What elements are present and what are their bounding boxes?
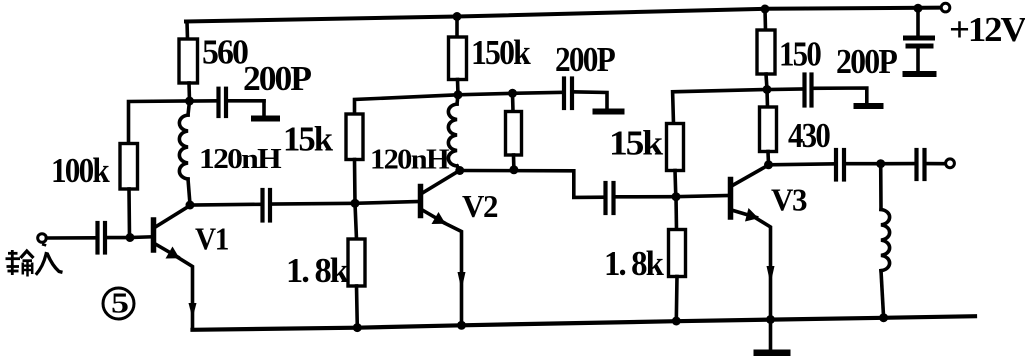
svg-text:200P: 200P bbox=[243, 59, 312, 98]
ground (stage 3 200P) bbox=[854, 103, 884, 109]
resistor 1.8k (stage 3 lower) bbox=[669, 197, 686, 321]
capacitor 200P (stage 1) to ground bbox=[190, 89, 265, 116]
node emitter V2 rail bbox=[457, 321, 466, 330]
wire node to base V3 bbox=[676, 196, 729, 197]
terminal +12V bbox=[941, 3, 950, 12]
svg-text:150k: 150k bbox=[471, 33, 531, 72]
inductor 120nH (stage 1) bbox=[179, 101, 190, 205]
svg-text:120nH: 120nH bbox=[370, 145, 450, 176]
svg-text:120nH: 120nH bbox=[199, 144, 282, 175]
svg-text:150: 150 bbox=[779, 35, 821, 74]
capacitor input coupling bbox=[98, 223, 126, 253]
resistor 150k bbox=[449, 17, 467, 95]
node top rail / 150k bbox=[453, 12, 462, 21]
transistor V3 bbox=[731, 165, 775, 320]
node collector V3 bbox=[764, 160, 773, 169]
terminal output bbox=[946, 159, 955, 168]
node output / inductor bbox=[876, 159, 885, 168]
node damping resistor bottom bbox=[509, 165, 518, 174]
wire input to cap bbox=[47, 236, 97, 240]
svg-text:560: 560 bbox=[202, 33, 248, 72]
capacitor 200P (stage 2) to ground bbox=[513, 79, 608, 110]
ground main (below rail) bbox=[754, 320, 791, 357]
svg-text:1. 8k: 1. 8k bbox=[286, 251, 349, 290]
resistor 15k (stage 2 upper) bbox=[346, 95, 458, 204]
svg-text:V1: V1 bbox=[195, 221, 228, 257]
capacitor coupling V2-V3 bbox=[460, 171, 676, 214]
svg-text:200P: 200P bbox=[555, 40, 615, 79]
node 150 bottom bbox=[763, 85, 772, 94]
resistor damping (parallel with L2) bbox=[506, 93, 522, 170]
capacitor output coupling 1 bbox=[769, 150, 881, 180]
svg-text:V2: V2 bbox=[462, 188, 497, 224]
wire node to base V2 bbox=[355, 202, 419, 204]
node collector V2 bbox=[455, 166, 464, 175]
capacitor bypass at +12V bbox=[903, 8, 937, 77]
node base V1 bbox=[126, 233, 135, 242]
wire node to base V1 bbox=[130, 235, 152, 239]
node emitter V3 rail bbox=[766, 315, 775, 324]
svg-text:15k: 15k bbox=[283, 120, 334, 159]
symbol circled 5 bbox=[103, 288, 134, 319]
node 1.8k bottom rail bbox=[353, 323, 362, 332]
terminal input bbox=[38, 234, 47, 243]
resistor 560 bbox=[179, 22, 198, 102]
resistor 1.8k (stage 2 lower) bbox=[348, 203, 365, 327]
svg-text:200P: 200P bbox=[836, 42, 897, 81]
resistor 430 bbox=[760, 90, 777, 165]
ground (stage 2 200P) bbox=[593, 109, 625, 115]
ground (stage 1 200P) bbox=[251, 116, 280, 122]
node top rail / 150 bbox=[761, 5, 770, 14]
capacitor 200P (stage 3) to ground bbox=[767, 75, 867, 106]
svg-text:1. 8k: 1. 8k bbox=[604, 244, 664, 283]
inductor 120nH (stage 2) bbox=[448, 95, 459, 171]
svg-text:+12V: +12V bbox=[949, 10, 1025, 49]
wire bottom common rail bbox=[193, 316, 976, 330]
node 560/100k/coil/200P bbox=[185, 97, 194, 106]
transistor V1 bbox=[154, 206, 197, 330]
wire top +12V supply rail bbox=[186, 8, 941, 22]
node 1.8k stage3 bottom rail bbox=[672, 317, 681, 326]
capacitor output coupling 2 bbox=[881, 150, 944, 179]
node 150k bottom bbox=[454, 90, 463, 99]
svg-text:V3: V3 bbox=[771, 182, 806, 218]
node collector V1 bbox=[186, 201, 195, 210]
inductor output bbox=[881, 164, 890, 318]
resistor 100k bbox=[120, 101, 190, 238]
label input (Chinese 输入) drawn as strokes bbox=[6, 244, 63, 276]
svg-text:5: 5 bbox=[111, 289, 129, 320]
svg-text:100k: 100k bbox=[51, 151, 110, 190]
capacitor coupling V1-V2 bbox=[190, 190, 355, 221]
svg-text:15k: 15k bbox=[609, 124, 664, 163]
svg-text:430: 430 bbox=[788, 116, 830, 155]
node base network V3 bbox=[672, 192, 681, 201]
transistor V2 bbox=[421, 171, 466, 326]
node inductor bottom rail bbox=[879, 313, 888, 322]
node top rail / bypass cap bbox=[914, 4, 923, 13]
wire 150k node to damping resistor bbox=[458, 93, 513, 95]
resistor 15k (stage 3 upper) bbox=[667, 90, 768, 197]
resistor 150 bbox=[757, 9, 775, 90]
node damping resistor top bbox=[508, 89, 517, 98]
node base network V2 bbox=[351, 199, 360, 208]
